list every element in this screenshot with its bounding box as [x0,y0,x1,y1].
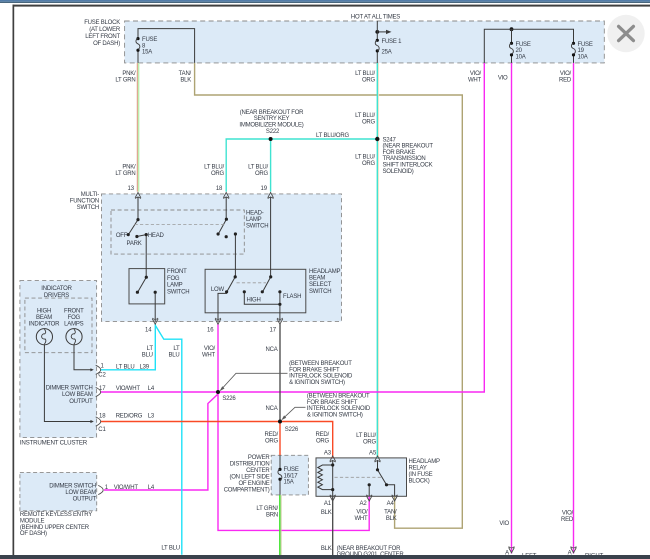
svg-text:10A: 10A [578,54,588,60]
svg-text:DIMMER SWITCH: DIMMER SWITCH [49,483,96,489]
svg-text:WHT: WHT [354,516,368,522]
svg-text:VIO/: VIO/ [204,346,216,352]
svg-text:C1: C1 [98,427,106,433]
svg-text:C2: C2 [98,372,106,378]
svg-text:18: 18 [216,186,223,192]
svg-text:A1: A1 [324,501,332,507]
svg-text:INSTRUMENT CLUSTER: INSTRUMENT CLUSTER [20,440,88,447]
svg-text:(BETWEEN BREAKOUT: (BETWEEN BREAKOUT [307,394,370,400]
svg-text:DRIVERS: DRIVERS [44,293,69,299]
svg-text:HEADLAMP: HEADLAMP [409,459,440,465]
svg-text:MODULE: MODULE [20,519,45,525]
svg-text:LT BLU/: LT BLU/ [355,155,375,161]
svg-text:PNK/: PNK/ [122,71,136,77]
svg-text:VIO/: VIO/ [470,71,482,77]
svg-text:VIO: VIO [499,521,509,527]
svg-text:FOR BRAKE SHIFT: FOR BRAKE SHIFT [289,367,340,373]
svg-text:PARK: PARK [127,241,142,247]
svg-text:TAN/: TAN/ [179,71,192,77]
svg-text:BLU: BLU [168,353,179,359]
svg-text:TRANSMISSION: TRANSMISSION [383,156,426,162]
svg-text:RED: RED [559,78,572,84]
svg-text:HOT AT ALL TIMES: HOT AT ALL TIMES [351,14,400,20]
svg-text:HEAD-: HEAD- [246,210,264,216]
svg-text:FUSE BLOCK: FUSE BLOCK [84,20,120,26]
svg-text:(BEHIND UPPER CENTER: (BEHIND UPPER CENTER [20,525,90,531]
svg-text:LT: LT [173,346,180,352]
svg-text:INDICATOR: INDICATOR [41,286,72,292]
svg-text:DIMMER SWITCH: DIMMER SWITCH [46,385,93,391]
svg-text:BLOCK): BLOCK) [409,478,430,484]
svg-text:25A: 25A [382,49,392,55]
svg-text:ORG: ORG [362,120,376,126]
svg-text:FOR BRAKE: FOR BRAKE [383,150,416,156]
svg-text:LT BLU/ORG: LT BLU/ORG [316,133,349,139]
svg-text:S222: S222 [266,129,280,135]
svg-text:FUNCTION: FUNCTION [70,198,99,204]
svg-text:ORG: ORG [363,440,377,446]
svg-text:HIGH: HIGH [37,308,51,314]
svg-text:(IN FUSE: (IN FUSE [409,472,433,478]
svg-text:& IGNITION SWITCH): & IGNITION SWITCH) [289,380,345,386]
svg-text:BLK: BLK [180,78,191,84]
svg-text:15A: 15A [284,480,294,486]
svg-text:ORG: ORG [362,78,376,84]
svg-text:INDICATOR: INDICATOR [29,321,60,327]
svg-text:HIGH: HIGH [247,297,261,303]
svg-text:WHT: WHT [468,78,482,84]
svg-text:FOG: FOG [68,315,81,321]
svg-text:HEADLAMP: HEADLAMP [309,269,340,275]
svg-text:OUTPUT: OUTPUT [69,399,93,405]
svg-text:LAMP: LAMP [246,217,262,223]
svg-text:LT BLU/: LT BLU/ [355,71,375,77]
svg-text:LEFT FRONT: LEFT FRONT [85,34,120,40]
svg-text:16: 16 [207,327,214,333]
svg-text:MULTI-: MULTI- [81,192,99,198]
svg-text:(ON LEFT SIDE: (ON LEFT SIDE [229,474,269,480]
svg-text:13: 13 [128,186,135,192]
svg-text:15A: 15A [142,50,152,56]
svg-text:TAN/: TAN/ [384,510,397,516]
svg-text:SWITCH: SWITCH [167,289,189,295]
svg-text:REMOTE KEYLESS ENTRY: REMOTE KEYLESS ENTRY [20,512,92,518]
svg-text:PNK/: PNK/ [122,165,136,171]
svg-text:LAMP: LAMP [167,283,183,289]
svg-text:OF ENGINE: OF ENGINE [238,481,269,487]
svg-text:14: 14 [145,327,152,333]
svg-text:BEAM: BEAM [309,276,325,282]
svg-text:FLASH: FLASH [283,294,301,300]
svg-text:20: 20 [516,48,523,54]
svg-text:18: 18 [99,413,106,419]
svg-text:VIO/WHT: VIO/WHT [116,386,141,392]
svg-text:(NEAR BREAKOUT: (NEAR BREAKOUT [383,144,434,150]
svg-text:VIO/: VIO/ [356,510,368,516]
svg-text:A5: A5 [369,451,377,457]
svg-text:BLK: BLK [321,546,332,552]
svg-text:VIO/: VIO/ [560,71,572,77]
svg-text:OF DASH): OF DASH) [20,531,47,537]
svg-text:LT BLU: LT BLU [116,364,134,370]
svg-text:FRONT: FRONT [167,269,187,275]
svg-text:FUSE: FUSE [284,467,299,473]
svg-text:POWER: POWER [248,455,270,461]
svg-text:LT BLU: LT BLU [161,546,179,552]
svg-text:(BETWEEN BREAKOUT: (BETWEEN BREAKOUT [289,361,352,367]
svg-text:(NEAR BREAKOUT FOR: (NEAR BREAKOUT FOR [337,546,401,552]
svg-text:ORG: ORG [316,439,330,445]
svg-text:19: 19 [578,48,585,54]
svg-text:17: 17 [99,386,106,392]
svg-text:FUSE 1: FUSE 1 [382,39,403,45]
svg-text:RED: RED [561,517,574,523]
svg-text:ORG: ORG [362,161,376,167]
svg-text:HEAD: HEAD [148,233,165,239]
svg-text:A2: A2 [359,501,367,507]
svg-text:CENTER: CENTER [246,468,270,474]
svg-text:S226: S226 [222,396,236,402]
svg-text:ORG: ORG [211,171,225,177]
svg-text:LT GRN/: LT GRN/ [256,506,278,512]
svg-text:L39: L39 [140,364,150,370]
svg-text:INTERLOCK SOLENOID: INTERLOCK SOLENOID [289,374,353,380]
svg-text:RED/: RED/ [316,432,330,438]
svg-text:LT BLU/: LT BLU/ [356,433,376,439]
svg-text:LOW BEAM: LOW BEAM [62,392,93,398]
svg-text:DISTRIBUTION: DISTRIBUTION [230,461,270,467]
svg-text:VIO/WHT: VIO/WHT [114,485,139,491]
svg-text:SHIFT INTERLOCK: SHIFT INTERLOCK [383,163,433,169]
svg-text:INTERLOCK SOLENOID: INTERLOCK SOLENOID [307,406,371,412]
svg-text:NCA: NCA [265,347,277,353]
svg-text:ORG: ORG [265,439,279,445]
svg-text:SOLENOID): SOLENOID) [383,169,414,175]
svg-text:16/17: 16/17 [284,473,299,479]
svg-text:S247: S247 [383,137,397,143]
svg-text:LT BLU/: LT BLU/ [204,165,224,171]
svg-text:FRONT: FRONT [64,308,84,314]
svg-text:L4: L4 [148,386,155,392]
svg-text:A4: A4 [387,501,395,507]
svg-text:OFF: OFF [116,233,128,239]
svg-text:L3: L3 [148,413,155,419]
svg-text:LT BLU/: LT BLU/ [355,113,375,119]
svg-text:17: 17 [270,327,277,333]
svg-text:BEAM: BEAM [36,315,52,321]
svg-text:FOR BRAKE SHIFT: FOR BRAKE SHIFT [307,400,358,406]
svg-text:LT GRN: LT GRN [115,78,135,84]
svg-text:SWITCH: SWITCH [309,289,331,295]
svg-text:VIO: VIO [498,76,508,82]
svg-text:LAMPS: LAMPS [64,321,83,327]
svg-text:OUTPUT: OUTPUT [73,496,97,502]
svg-text:WHT: WHT [202,353,216,359]
svg-text:OF DASH): OF DASH) [93,41,120,47]
svg-text:BRN: BRN [266,513,278,519]
svg-text:SWITCH: SWITCH [246,223,268,229]
svg-text:S226: S226 [285,427,299,433]
svg-text:LT GRN: LT GRN [115,171,135,177]
svg-text:BLK: BLK [321,510,332,516]
svg-text:A3: A3 [324,451,332,457]
svg-text:LOW BEAM: LOW BEAM [65,490,96,496]
svg-text:10A: 10A [516,54,526,60]
svg-text:BLK: BLK [386,516,397,522]
svg-text:FUSE: FUSE [142,37,157,43]
svg-text:IMMOBILIZER MODULE): IMMOBILIZER MODULE) [239,122,303,128]
svg-text:RED/ORG: RED/ORG [116,413,143,419]
svg-text:COMPARTMENT): COMPARTMENT) [224,487,270,493]
svg-text:NCA: NCA [265,406,277,412]
svg-text:ORG: ORG [255,171,269,177]
svg-text:FUSE: FUSE [516,42,531,48]
svg-text:SELECT: SELECT [309,282,332,288]
svg-text:FUSE: FUSE [578,42,593,48]
svg-text:VIO/: VIO/ [562,511,574,517]
svg-text:19: 19 [261,186,268,192]
svg-text:RED/: RED/ [265,432,279,438]
svg-text:FOG: FOG [167,276,180,282]
svg-text:BLU: BLU [142,353,153,359]
svg-text:LOW: LOW [211,287,225,293]
svg-text:(NEAR BREAKOUT FOR: (NEAR BREAKOUT FOR [240,110,304,116]
svg-text:(AT LOWER: (AT LOWER [89,27,121,33]
svg-text:SENTRY KEY: SENTRY KEY [254,116,290,122]
svg-text:RELAY: RELAY [409,465,427,471]
svg-text:& IGNITION SWITCH): & IGNITION SWITCH) [307,412,363,418]
svg-text:LT BLU/: LT BLU/ [248,165,268,171]
svg-text:SWITCH: SWITCH [77,205,99,211]
svg-text:LT: LT [147,346,154,352]
svg-text:L4: L4 [148,485,155,491]
